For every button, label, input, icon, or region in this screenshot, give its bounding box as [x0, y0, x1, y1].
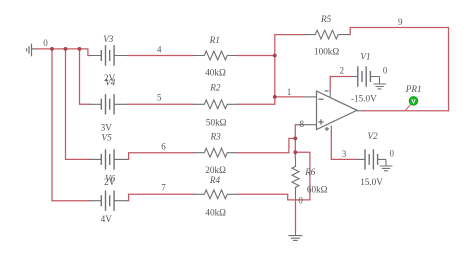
svg-text:15.0V: 15.0V: [360, 177, 383, 187]
svg-text:4: 4: [157, 44, 162, 54]
svg-text:2: 2: [340, 66, 345, 76]
svg-text:100kΩ: 100kΩ: [314, 46, 339, 56]
svg-text:1: 1: [287, 87, 292, 97]
svg-text:5: 5: [157, 93, 162, 103]
svg-text:0: 0: [390, 149, 395, 159]
svg-text:6: 6: [161, 142, 166, 152]
svg-text:0: 0: [383, 66, 388, 76]
svg-text:V5: V5: [102, 133, 113, 143]
svg-text:60kΩ: 60kΩ: [307, 185, 328, 195]
svg-text:R5: R5: [320, 14, 332, 24]
svg-text:2V: 2V: [104, 177, 116, 187]
svg-text:2V: 2V: [104, 73, 116, 83]
svg-text:0: 0: [43, 38, 48, 48]
svg-text:R6: R6: [304, 167, 316, 177]
svg-text:8: 8: [300, 119, 305, 129]
svg-text:V3: V3: [103, 34, 114, 44]
svg-text:R2: R2: [209, 82, 221, 92]
svg-text:4V: 4V: [101, 214, 113, 224]
svg-text:-15.0V: -15.0V: [351, 94, 377, 104]
svg-text:9: 9: [398, 17, 403, 27]
svg-text:R3: R3: [210, 132, 222, 142]
svg-text:50kΩ: 50kΩ: [206, 117, 227, 127]
svg-text:40kΩ: 40kΩ: [205, 207, 226, 217]
svg-text:R4: R4: [209, 175, 221, 185]
svg-text:40kΩ: 40kΩ: [205, 67, 226, 77]
svg-text:PR1: PR1: [405, 84, 422, 94]
svg-text:3: 3: [342, 149, 347, 159]
svg-text:0: 0: [298, 196, 303, 206]
svg-text:V2: V2: [368, 131, 379, 141]
svg-text:3V: 3V: [101, 123, 113, 133]
svg-text:7: 7: [161, 183, 166, 193]
svg-text:V1: V1: [360, 52, 370, 62]
svg-text:20kΩ: 20kΩ: [205, 165, 226, 175]
svg-text:R1: R1: [209, 35, 220, 45]
